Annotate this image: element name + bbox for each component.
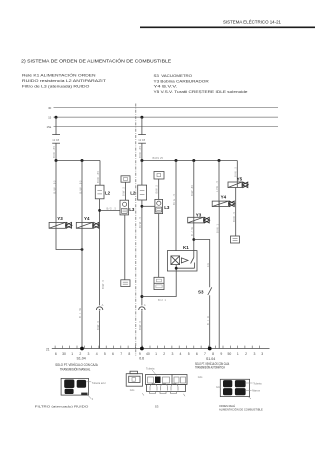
svg-text:S1.04: S1.04 bbox=[206, 357, 215, 361]
node right feed 3 bbox=[192, 159, 195, 162]
svg-text:FILTRO (atenuado) RUIDO: FILTRO (atenuado) RUIDO bbox=[35, 405, 89, 409]
bus 30 bbox=[48, 106, 278, 110]
svg-text:1: 1 bbox=[155, 352, 157, 356]
wire connector to terminal strip right bbox=[141, 311, 143, 349]
wire corner to L2 left bbox=[99, 161, 101, 186]
svg-text:RUIDO resistencia L2 ANTIPARAZ: RUIDO resistencia L2 ANTIPARAZIT bbox=[22, 79, 107, 83]
terminal box below L3 left bbox=[121, 280, 130, 287]
svg-text:ALIMENTACIÓN DE COMBUSTIBLE: ALIMENTACIÓN DE COMBUSTIBLE bbox=[219, 407, 263, 412]
node Y3 bottom junction bbox=[192, 238, 195, 241]
resistor L2 right bbox=[130, 185, 146, 200]
svg-text:Relé K1 ALIMENTACIÓN ORDEN: Relé K1 ALIMENTACIÓN ORDEN bbox=[22, 73, 96, 78]
svg-text:30: 30 bbox=[48, 106, 52, 110]
svg-text:3: 3 bbox=[253, 352, 255, 356]
svg-text:50: 50 bbox=[228, 352, 232, 356]
wire Y3 bottom elbow to Y4 wire bbox=[56, 228, 82, 249]
svg-text:9: 9 bbox=[220, 352, 222, 356]
bus 15a bbox=[46, 125, 278, 129]
node right feed 4 bbox=[218, 159, 221, 162]
svg-text:B/G .5: B/G .5 bbox=[172, 193, 176, 205]
svg-text:B/W .85: B/W .85 bbox=[96, 170, 100, 183]
fuse F8 right (bars with label 12 F8) bbox=[138, 135, 146, 144]
connector illustration: small Gris connector bbox=[126, 371, 142, 392]
wire bus15 down to fuse left bbox=[55, 117, 57, 134]
svg-text:3: 3 bbox=[171, 352, 173, 356]
svg-text:5: 5 bbox=[104, 352, 106, 356]
svg-text:7: 7 bbox=[204, 352, 206, 356]
node terminal Y4 left bbox=[80, 347, 84, 351]
svg-text:L2: L2 bbox=[130, 191, 136, 196]
solenoid Y3 left bbox=[49, 216, 72, 229]
svg-text:Y5 V.S.V. Turatii CREȘTERE IDL: Y5 V.S.V. Turatii CREȘTERE IDLE solenoid… bbox=[154, 90, 248, 94]
wire corner down to Y5 bbox=[236, 161, 238, 188]
wire down to K1 coil bbox=[175, 161, 177, 251]
svg-text:Tuberia azul: Tuberia azul bbox=[92, 382, 106, 385]
fuse F8 left (bars with label 12 F8) bbox=[52, 135, 60, 144]
node bus15 tap right bbox=[140, 116, 143, 119]
svg-text:S3: S3 bbox=[155, 405, 159, 409]
wire fuse to feed node right bbox=[141, 143, 143, 160]
node bus15 tap left bbox=[55, 116, 58, 119]
svg-text:B/W .5: B/W .5 bbox=[96, 320, 100, 330]
svg-text:1: 1 bbox=[237, 352, 239, 356]
svg-text:L3: L3 bbox=[164, 205, 170, 210]
svg-text:B/R: B/R bbox=[206, 316, 210, 325]
connector A inline left bbox=[96, 303, 103, 311]
svg-text:B/W .85: B/W .85 bbox=[78, 180, 82, 194]
svg-text:30: 30 bbox=[62, 352, 66, 356]
svg-text:2: 2 bbox=[245, 352, 247, 356]
svg-text:TRANSMISIÓN AUTOMÁTICA: TRANSMISIÓN AUTOMÁTICA bbox=[195, 364, 225, 369]
wire Y5 down to ground box bbox=[235, 188, 237, 237]
svg-text:5: 5 bbox=[188, 352, 190, 356]
terminal strip S1.04 bbox=[46, 346, 270, 352]
svg-text:B/W .85: B/W .85 bbox=[190, 184, 194, 196]
svg-text:S3: S3 bbox=[198, 289, 204, 294]
wire down to Y4 left bbox=[81, 161, 83, 229]
wire Y4 down to terminal strip bbox=[81, 228, 83, 348]
svg-text:B/W 1: B/W 1 bbox=[215, 223, 219, 233]
wire L3 bottom right bbox=[158, 214, 160, 278]
svg-text:Y3 Bobina CARBURADOR: Y3 Bobina CARBURADOR bbox=[154, 79, 210, 83]
connector illustration: S3 connector (middle) bbox=[142, 367, 187, 396]
node K1 coil bottom to filter branch bbox=[140, 295, 143, 298]
svg-text:Filtro de L3 (atenuada) RUIDO: Filtro de L3 (atenuada) RUIDO bbox=[22, 84, 90, 88]
connector box above L3 right bbox=[154, 172, 164, 180]
svg-text:B/W .5: B/W .5 bbox=[138, 320, 142, 330]
svg-text:S1.04: S1.04 bbox=[77, 356, 86, 360]
svg-text:A: A bbox=[144, 303, 146, 307]
wire L2 bottom down bbox=[99, 199, 101, 306]
filter L3 right bbox=[155, 199, 170, 213]
node right feed 1 bbox=[140, 159, 143, 162]
svg-text:B/W .85: B/W .85 bbox=[52, 180, 56, 194]
node left feed 1 bbox=[55, 159, 58, 162]
svg-text:K1: K1 bbox=[183, 245, 189, 250]
node L2/L3 junction right bbox=[141, 205, 144, 208]
svg-text:Y4: Y4 bbox=[221, 194, 227, 199]
svg-text:B/W .85: B/W .85 bbox=[138, 145, 142, 158]
svg-text:L3: L3 bbox=[129, 207, 135, 212]
svg-text:B/W .5: B/W .5 bbox=[122, 186, 126, 196]
svg-text:B/G .5: B/G .5 bbox=[107, 207, 117, 211]
wire bus15 down to fuse right bbox=[141, 117, 143, 134]
legend left column bbox=[22, 73, 107, 89]
svg-text:3: 3 bbox=[261, 352, 263, 356]
svg-text:SISTEMA ELÉCTRICO 14-21: SISTEMA ELÉCTRICO 14-21 bbox=[223, 18, 281, 25]
svg-text:12 F8: 12 F8 bbox=[138, 138, 145, 142]
svg-text:6: 6 bbox=[196, 352, 198, 356]
wire box to L3 left bbox=[125, 182, 127, 200]
svg-text:S3 VACUOMETRO: S3 VACUOMETRO bbox=[154, 74, 193, 78]
solenoid Y5 bbox=[228, 176, 248, 187]
relay K1 bbox=[167, 245, 197, 271]
solenoid Y4 left bbox=[76, 216, 99, 229]
svg-text:B/W .5: B/W .5 bbox=[232, 211, 236, 222]
filter L3 left bbox=[120, 200, 135, 215]
wire down to Y3 left bbox=[55, 161, 57, 229]
node right feed 2 bbox=[175, 159, 178, 162]
svg-text:0.6: 0.6 bbox=[139, 356, 144, 360]
svg-text:Y3: Y3 bbox=[196, 213, 202, 218]
svg-text:Y3: Y3 bbox=[57, 216, 63, 221]
svg-text:B/W .5: B/W .5 bbox=[101, 279, 105, 289]
svg-text:2) SISTEMA DE ORDEN DE ALIMENT: 2) SISTEMA DE ORDEN DE ALIMENTACIÓN DE C… bbox=[21, 59, 171, 64]
svg-text:21: 21 bbox=[46, 347, 50, 351]
wire junction to S3 branch bbox=[194, 240, 210, 288]
wire down to L2 right bbox=[141, 161, 143, 186]
wire fuse to node A1 left bbox=[55, 143, 57, 160]
svg-text:L2: L2 bbox=[105, 190, 111, 195]
wire L2 bottom down right bbox=[141, 200, 143, 305]
ground box Y5 bbox=[231, 236, 240, 243]
resistor L2 left bbox=[95, 185, 110, 199]
svg-text:Tuberia: Tuberia bbox=[146, 367, 155, 370]
wire horizontal feed right section bbox=[142, 160, 237, 162]
legend right column bbox=[154, 74, 248, 94]
wire filter branch to K1 coil bottom bbox=[142, 271, 176, 302]
solenoid Y4 right bbox=[212, 194, 234, 206]
svg-text:40: 40 bbox=[146, 352, 150, 356]
svg-text:15a: 15a bbox=[46, 125, 51, 129]
connector illustration: K1 relay connector (bottom right) bbox=[216, 379, 262, 399]
svg-text:B/W .5: B/W .5 bbox=[155, 184, 159, 193]
svg-text:Tuberia: Tuberia bbox=[253, 383, 262, 386]
svg-text:4b: 4b bbox=[206, 262, 210, 267]
svg-text:Y5: Y5 bbox=[237, 176, 243, 181]
svg-text:4: 4 bbox=[96, 352, 98, 356]
svg-text:L/W .5: L/W .5 bbox=[215, 180, 219, 192]
wire junction to L3 right bbox=[142, 205, 155, 207]
svg-text:Y4 B.V.V.: Y4 B.V.V. bbox=[154, 85, 178, 89]
svg-text:2: 2 bbox=[163, 352, 165, 356]
svg-text:4: 4 bbox=[180, 352, 182, 356]
svg-text:B/2 1: B/2 1 bbox=[158, 298, 167, 302]
svg-text:3: 3 bbox=[88, 352, 90, 356]
svg-text:TRANSMISIÓN MANUAL: TRANSMISIÓN MANUAL bbox=[60, 366, 91, 371]
solenoid Y3 right bbox=[188, 213, 210, 223]
svg-text:A: A bbox=[102, 303, 104, 307]
svg-text:15: 15 bbox=[48, 116, 52, 120]
terminal strip numbers bbox=[55, 352, 263, 356]
svg-text:Gris: Gris bbox=[198, 376, 203, 379]
connector A inline right bbox=[139, 303, 146, 311]
node terminal S3 bbox=[208, 347, 212, 351]
wire L3 bottom left bbox=[124, 215, 126, 280]
svg-text:12 F8: 12 F8 bbox=[52, 138, 59, 142]
svg-text:7: 7 bbox=[120, 352, 122, 356]
wire down to Y3 right bbox=[193, 161, 195, 223]
wire Y4 to terminal strip bbox=[218, 201, 220, 348]
switch S3 vacuometer bbox=[198, 287, 212, 295]
wire box to L3 right bbox=[158, 179, 160, 199]
svg-text:6: 6 bbox=[112, 352, 114, 356]
svg-text:8: 8 bbox=[212, 352, 214, 356]
bus 15 bbox=[48, 116, 278, 120]
connector box above L3 left bbox=[121, 176, 130, 182]
wire Y3 bottom to junction bbox=[193, 223, 195, 251]
svg-text:Marron: Marron bbox=[252, 390, 261, 393]
svg-text:B/W .5: B/W .5 bbox=[138, 216, 142, 228]
wire horizontal feed left section bbox=[56, 160, 100, 162]
wire S3 to terminal strip bbox=[209, 295, 211, 348]
wire connector to terminal strip bbox=[99, 311, 101, 349]
terminal box below L3 right (two cells) bbox=[154, 277, 164, 289]
node terminal filter right bbox=[140, 347, 144, 351]
caption left: solo pt vehiculo caja manual bbox=[55, 363, 98, 371]
svg-text:Gris: Gris bbox=[130, 389, 135, 392]
svg-text:B/W1 25: B/W1 25 bbox=[153, 156, 164, 160]
svg-text:Y4: Y4 bbox=[84, 216, 90, 221]
separator dash-dot line between manual and automatic sections bbox=[135, 104, 137, 357]
svg-text:1: 1 bbox=[71, 352, 73, 356]
caption right: solo pt vehiculos caja automatica bbox=[195, 362, 230, 370]
connector illustration: filter L3 (bottom left) bbox=[61, 378, 106, 401]
header page title bbox=[223, 18, 281, 25]
caption orden rele bbox=[219, 403, 263, 411]
node Y3/Y4 join bbox=[81, 248, 84, 251]
header rule bbox=[140, 26, 315, 28]
svg-text:8: 8 bbox=[128, 352, 130, 356]
svg-text:6: 6 bbox=[55, 352, 57, 356]
svg-text:Gris: Gris bbox=[216, 386, 221, 389]
node L2/L3 junction left bbox=[98, 209, 101, 212]
wire down to Y4 right bbox=[218, 161, 220, 207]
svg-text:B/W .85: B/W .85 bbox=[52, 145, 56, 158]
wire junction to L3 left bbox=[100, 209, 120, 211]
node left feed 2 bbox=[81, 159, 84, 162]
